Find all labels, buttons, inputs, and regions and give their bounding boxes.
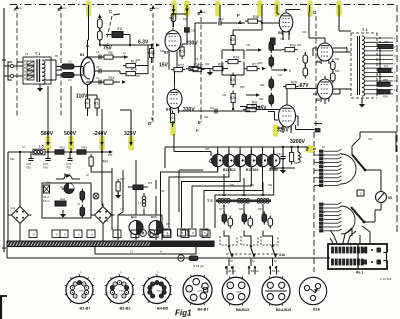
svg-text:A: A [160,250,162,254]
svg-text:49 50: 49 50 [228,269,236,273]
tube B1 [80,53,95,88]
svg-text:GZ34: GZ34 [198,290,204,292]
svg-text:E: E [289,69,291,73]
resistor R24 [225,56,241,64]
B5 wires [272,10,300,41]
highlight 500V [68,138,74,148]
bridge rectifier Gr2 [92,204,115,227]
arrow E2 [271,68,291,73]
top bus wire [233,21,272,30]
highlight below B4 [273,127,279,134]
svg-text:R26: R26 [230,96,236,100]
svg-text:S: S [78,233,80,237]
resistor R59 [377,90,390,99]
box SM1 [357,190,364,196]
meter M1 [376,192,393,203]
svg-text:330V: 330V [183,107,195,113]
resistor R39 [283,81,299,89]
highlight mark top x=310 [307,3,313,14]
svg-text:S: S [206,233,208,237]
svg-text:S9': S9' [258,207,262,211]
fuse lamp [93,193,99,199]
tube B5 [278,10,293,35]
svg-text:C13: C13 [218,17,224,21]
svg-text:B1: B1 [80,53,84,57]
resistor R16 [171,64,205,72]
bridge rectifier Gr1 [9,204,32,227]
svg-text:B6: B6 [316,60,320,64]
T3 upper labels [222,174,265,197]
wire under highlight 187 [182,5,196,44]
svg-text:R31: R31 [252,101,258,105]
svg-text:110: 110 [384,64,389,68]
box Ra2 [55,197,66,206]
T2 labels right [378,40,393,73]
connector label [356,271,363,275]
svg-text:R70: R70 [120,178,125,181]
plus circles [140,230,155,237]
resistor R31 [240,101,260,109]
svg-text:110V: 110V [76,94,88,100]
tube B14 [129,215,143,240]
socket B14-B15 [262,276,291,312]
cap C70a [26,152,34,170]
tube B15 [149,215,163,240]
-95V label [256,106,267,112]
svg-text:T 3: T 3 [207,199,213,203]
B6 B7 wiring [309,12,351,104]
svg-text:R25: R25 [230,78,236,82]
connector block [328,244,389,269]
svg-text:C 16 µF: C 16 µF [193,264,204,268]
resistor R22 [200,63,228,71]
resistor R23 vertical [230,30,236,48]
transformer T1 [23,52,51,84]
highlight mark top x=174 [171,3,177,14]
svg-text:51 52: 51 52 [251,269,259,273]
svg-text:C14: C14 [246,44,251,47]
B14 B15 feed wires [118,160,156,215]
tiny reference labels [10,18,373,263]
switch S16 poles [227,240,278,275]
svg-text:R20: R20 [179,50,185,54]
svg-text:B13 B12: B13 B12 [223,168,236,172]
svg-text:R9: R9 [109,51,113,55]
tube B4 [278,102,296,130]
resistor R11 [106,27,130,44]
capacitor C1 [56,60,80,70]
svg-text:M1: M1 [388,196,393,200]
socket B2-B3 [105,274,135,311]
svg-text:B4-B5: B4-B5 [157,307,168,311]
svg-text:S: S [167,233,169,237]
T2 tap lines [365,36,397,95]
svg-text:R19: R19 [205,63,210,66]
highlight node 8 [305,145,315,153]
contact rows switch S1 [320,149,342,186]
oval R6a [80,189,85,203]
svg-text:S: S [360,192,362,196]
tube row labels [223,168,278,172]
rail F label [237,13,242,24]
svg-text:S: S [91,233,93,237]
svg-text:R41: R41 [335,58,340,61]
socket B4-B5 [142,274,172,311]
230V label [186,41,198,47]
label 500V [64,86,77,146]
svg-text:S: S [117,233,119,237]
svg-text:R11: R11 [117,27,123,31]
svg-text:E88CC: E88CC [80,290,87,292]
box around B14 B15 [118,215,162,240]
cap C70b [43,152,51,170]
resistor R6h [243,104,280,112]
highlight mark top x=277 [274,3,280,14]
svg-text:R: R [78,202,80,206]
wire under highlight 277 [277,5,280,14]
svg-text:D': D' [148,121,152,126]
cap C70c [66,152,73,170]
svg-text:R20: R20 [183,18,188,21]
svg-text:Ra 1: Ra 1 [356,271,363,275]
right panel dashed border [314,132,320,272]
svg-text:S8': S8' [239,207,243,211]
resistor R63 [77,146,87,155]
dashed box c3 [261,236,278,245]
svg-text:C11: C11 [191,29,196,33]
svg-text:B7: B7 [316,98,320,102]
terminal boxes row [29,230,210,238]
resistor R36 [189,15,261,69]
resistor R1 oval [98,14,103,31]
ground g2 [207,69,213,76]
svg-text:R22: R22 [218,63,224,67]
svg-text:R29: R29 [260,84,265,87]
label 580V [41,86,54,146]
svg-text:700: 700 [43,166,48,170]
svg-text:B5: B5 [278,31,282,35]
T3 lower labels [219,207,262,211]
wire below chassis [7,246,330,258]
svg-text:L 5: L 5 [39,145,44,149]
resistor R13 [123,60,148,68]
svg-text:R55: R55 [205,148,210,151]
svg-text:T 2: T 2 [362,28,368,32]
svg-text:53 54: 53 54 [272,269,280,273]
svg-text:R40: R40 [302,31,307,34]
svg-text:2kV: 2kV [203,12,207,14]
resistor R62 [55,146,65,155]
svg-text:6.3V: 6.3V [138,40,149,46]
rail C dashed slanted [107,9,120,38]
svg-text:B1-B7: B1-B7 [80,307,91,311]
T3 wires down [224,204,273,240]
socket B6-B7 [183,275,212,312]
resistor R41 vertical [331,59,336,72]
svg-text:R63: R63 [82,146,88,150]
resistor R20 vertical [179,44,185,59]
resistor above B14 [115,179,121,199]
capacitor C2 [56,73,80,83]
svg-text:C1: C1 [68,60,72,64]
svg-text:C 10 500: C 10 500 [380,277,392,281]
tube B3 [166,87,182,112]
svg-text:C9: C9 [210,106,214,110]
svg-text:R11: R11 [204,115,209,119]
highlight -240V [99,138,105,148]
circled 17 [178,255,187,261]
svg-text:R25: R25 [240,86,245,89]
svg-text:C11: C11 [222,94,227,97]
T2 ground [359,98,365,108]
page border right dashed [396,5,398,232]
svg-text:C16: C16 [280,38,285,41]
wire under highlight 310 [309,5,311,12]
tube B6 [316,40,333,64]
-67V label [296,83,318,89]
svg-text:3200V: 3200V [290,139,306,145]
svg-text:-: - [186,257,187,261]
highlight mark top x=218 [215,3,221,14]
wire under highlight 339 [338,5,340,12]
text Str2 [43,195,50,203]
B4 wires [268,89,314,134]
320V label B4 [277,128,289,134]
svg-text:B15: B15 [151,215,157,219]
svg-text:C50: C50 [210,158,215,161]
wire 110V node [88,95,98,116]
highlight 580V [45,138,51,148]
resistor R2 oval [98,29,103,46]
svg-text:R42: R42 [335,70,340,73]
PSU vert wires [8,145,112,241]
input terminal J1 [4,62,23,80]
dashed box c2 [241,236,258,245]
svg-text:R30: R30 [259,98,264,101]
svg-text:R39: R39 [291,81,297,85]
bottom-left corner mark [0,296,7,319]
socket top pins [80,271,160,274]
resistor R14 [101,45,148,76]
resistor R27 [244,63,266,71]
rail G dashed vertical [313,10,317,130]
svg-text:C17: C17 [278,74,283,77]
svg-text:B3: B3 [166,108,170,112]
staircase wires from B8-B13 [161,167,274,228]
row top stubs [218,147,274,154]
resistor R38 [246,44,298,97]
PSU top bus [8,150,113,154]
svg-text:R19: R19 [194,63,200,67]
svg-text:S: S [192,231,194,235]
T3 secondary ovals [222,212,273,229]
svg-text:2kV: 2kV [19,8,23,10]
svg-text:R18: R18 [160,50,165,53]
B1 lower resistor Ra [85,96,100,111]
svg-text:S: S [33,233,35,237]
control box [42,183,91,218]
svg-text:R36: R36 [253,15,259,19]
svg-text:S: S [182,231,184,235]
cap C4 [99,55,101,85]
svg-text:R12: R12 [169,16,174,20]
node E' [198,115,209,125]
motor M [62,184,74,194]
node 8 text [306,124,322,153]
svg-text:L7: L7 [138,201,142,205]
B2-B3 wiring [169,14,186,113]
svg-text:F': F' [196,129,199,133]
highlight mark top x=187 [184,3,190,14]
inductor L5 [33,145,45,155]
svg-text:230: 230 [384,40,389,44]
svg-text:R59: R59 [383,95,388,99]
highlight mark top x=88.5 [86,3,92,14]
svg-text:E88CC: E88CC [120,290,127,292]
svg-text:Fig1: Fig1 [175,309,192,318]
transformer T2 [351,28,377,98]
svg-text:S8a: S8a [250,184,255,187]
320V label B3 [183,107,195,113]
B1 wires [80,5,100,95]
PSU gnd [60,210,66,218]
svg-text:15V: 15V [159,63,169,69]
switch terminals [225,266,280,273]
highlight 325V [128,138,134,148]
oval C16 [189,256,204,268]
svg-text:M: M [60,186,62,189]
svg-text:B16: B16 [313,308,320,312]
highlight below R21 [170,124,176,133]
line under B3 [179,106,251,113]
svg-text:C60: C60 [10,158,15,161]
tube B7 [316,76,333,102]
arrow node s1 [113,55,128,59]
rail A dashed vertical [14,5,24,118]
svg-text:R14: R14 [131,68,137,72]
relay switch Ra1 [56,173,80,179]
svg-text:B2: B2 [164,51,168,55]
socket B16 [299,277,326,311]
svg-text:500V: 500V [64,131,77,137]
T1 wiring [17,60,62,80]
svg-text:E': E' [198,120,202,125]
svg-text:R23: R23 [230,38,236,42]
svg-text:700: 700 [66,166,71,170]
resistor R42 vertical [331,71,336,84]
3200V bus [165,129,308,212]
svg-text:E88CC: E88CC [157,290,164,292]
svg-text:B11 B10: B11 B10 [246,168,259,172]
T4 label [209,242,213,246]
connector wires [330,226,370,243]
svg-text:R37: R37 [297,44,302,47]
svg-text:B14-B15: B14-B15 [276,308,291,312]
svg-text:75V: 75V [103,46,113,52]
svg-text:B6-B7: B6-B7 [198,308,209,312]
rail E dashed vertical [198,9,208,122]
svg-text:R15: R15 [109,76,115,80]
110V label [76,94,88,100]
svg-text:R26: R26 [258,62,263,65]
svg-text:C51: C51 [277,152,282,156]
page border left [2,8,6,252]
rotary switch S2 arc [341,206,365,234]
resistor R25 vertical [230,73,236,88]
svg-text:R65: R65 [108,154,113,157]
resistors left of B6 [303,52,308,79]
svg-text:R21: R21 [170,116,176,120]
svg-text:S7': S7' [219,207,223,211]
svg-text:T 1: T 1 [35,52,40,56]
chassis bar [7,241,214,247]
svg-text:R24: R24 [233,56,239,60]
svg-text:M: M [62,187,65,191]
resistor R3 [86,51,116,59]
svg-text:85A2: 85A2 [236,290,242,293]
rail D dashed vertical [150,5,160,122]
6.3V heater line [100,40,160,47]
svg-text:C51: C51 [280,158,285,161]
T1 ground [37,84,43,92]
Fig1 label [175,309,192,318]
page border top dashed [10,4,396,6]
cap C15 [271,38,276,50]
svg-text:R16: R16 [178,64,184,68]
svg-text:580V: 580V [41,131,54,137]
highlight mark top x=260 [257,3,263,14]
svg-text:S: S [185,233,187,237]
svg-text:Gr2: Gr2 [104,220,109,223]
bottom right text [380,277,392,281]
dashed box c1 [220,236,237,245]
resistor R57 vertical [290,147,294,165]
switch link dashed [226,253,285,257]
svg-text:S14: S14 [368,138,373,141]
svg-text:700: 700 [26,166,31,170]
svg-text:S9a: S9a [268,184,273,187]
transformer T3 [207,198,271,203]
svg-text:ST-m: ST-m [43,199,50,203]
svg-text:S16: S16 [279,253,285,257]
splitter wires [222,45,244,76]
svg-text:S: S [56,233,58,237]
rotary switch S1 arc [341,132,396,184]
svg-text:B2-B3: B2-B3 [120,307,131,311]
svg-text:R64: R64 [102,160,108,164]
resistor R19 [186,63,201,71]
coil L6 [298,147,303,163]
svg-text:S: S [64,233,66,237]
svg-text:R58: R58 [383,78,388,82]
svg-text:R13: R13 [136,59,141,62]
svg-text:Gr1: Gr1 [11,206,16,210]
label 3200V [290,139,306,145]
resistor R18 vertical [149,45,155,63]
svg-text:17: 17 [130,250,134,254]
svg-text:S7a: S7a [230,184,235,187]
tube B2 [164,28,181,55]
label 325V [120,110,137,146]
chassis step box [95,247,196,254]
svg-text:B14: B14 [131,215,137,219]
svg-text:C2: C2 [68,78,72,82]
svg-text:R62: R62 [60,146,66,150]
relay Rel [44,181,52,194]
row ground [270,167,295,174]
coil L7 [138,193,146,215]
label -240V [93,109,107,146]
